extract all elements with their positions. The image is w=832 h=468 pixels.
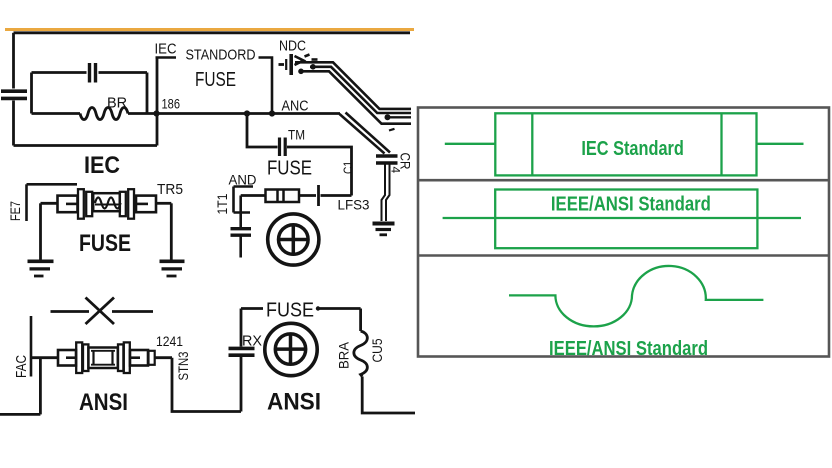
- svg-text:NDC: NDC: [279, 39, 306, 55]
- svg-text:IEC Standard: IEC Standard: [581, 138, 684, 160]
- svg-text:C1: C1: [341, 161, 356, 174]
- svg-text:FUSE: FUSE: [266, 300, 314, 322]
- svg-text:1241: 1241: [156, 333, 183, 349]
- svg-text:STN3: STN3: [175, 351, 191, 380]
- svg-text:4: 4: [389, 167, 403, 174]
- svg-text:FE7: FE7: [7, 201, 23, 221]
- svg-text:CU5: CU5: [369, 338, 385, 362]
- svg-text:IEC: IEC: [84, 152, 120, 179]
- svg-text:TM: TM: [288, 128, 305, 143]
- svg-text:STANDORD: STANDORD: [186, 48, 256, 64]
- svg-text:FUSE: FUSE: [195, 69, 236, 91]
- svg-text:BR: BR: [107, 96, 127, 112]
- svg-text:RX: RX: [242, 333, 262, 350]
- svg-text:IEEE/ANSI Standard: IEEE/ANSI Standard: [551, 194, 711, 216]
- svg-text:LFS3: LFS3: [338, 197, 370, 213]
- svg-text:ANC: ANC: [282, 99, 309, 115]
- svg-text:1T1: 1T1: [215, 194, 230, 215]
- svg-text:FUSE: FUSE: [267, 158, 312, 180]
- svg-text:FUSE: FUSE: [79, 230, 131, 257]
- svg-text:186: 186: [162, 97, 181, 112]
- svg-text:ANSI: ANSI: [79, 389, 128, 416]
- svg-text:TR5: TR5: [157, 181, 183, 198]
- svg-text:IEC: IEC: [155, 41, 177, 58]
- svg-text:BRA: BRA: [336, 341, 352, 369]
- svg-text:IEEE/ANSI Standard: IEEE/ANSI Standard: [549, 338, 708, 360]
- svg-text:ANSI: ANSI: [267, 389, 321, 416]
- svg-text:FAC: FAC: [13, 355, 30, 378]
